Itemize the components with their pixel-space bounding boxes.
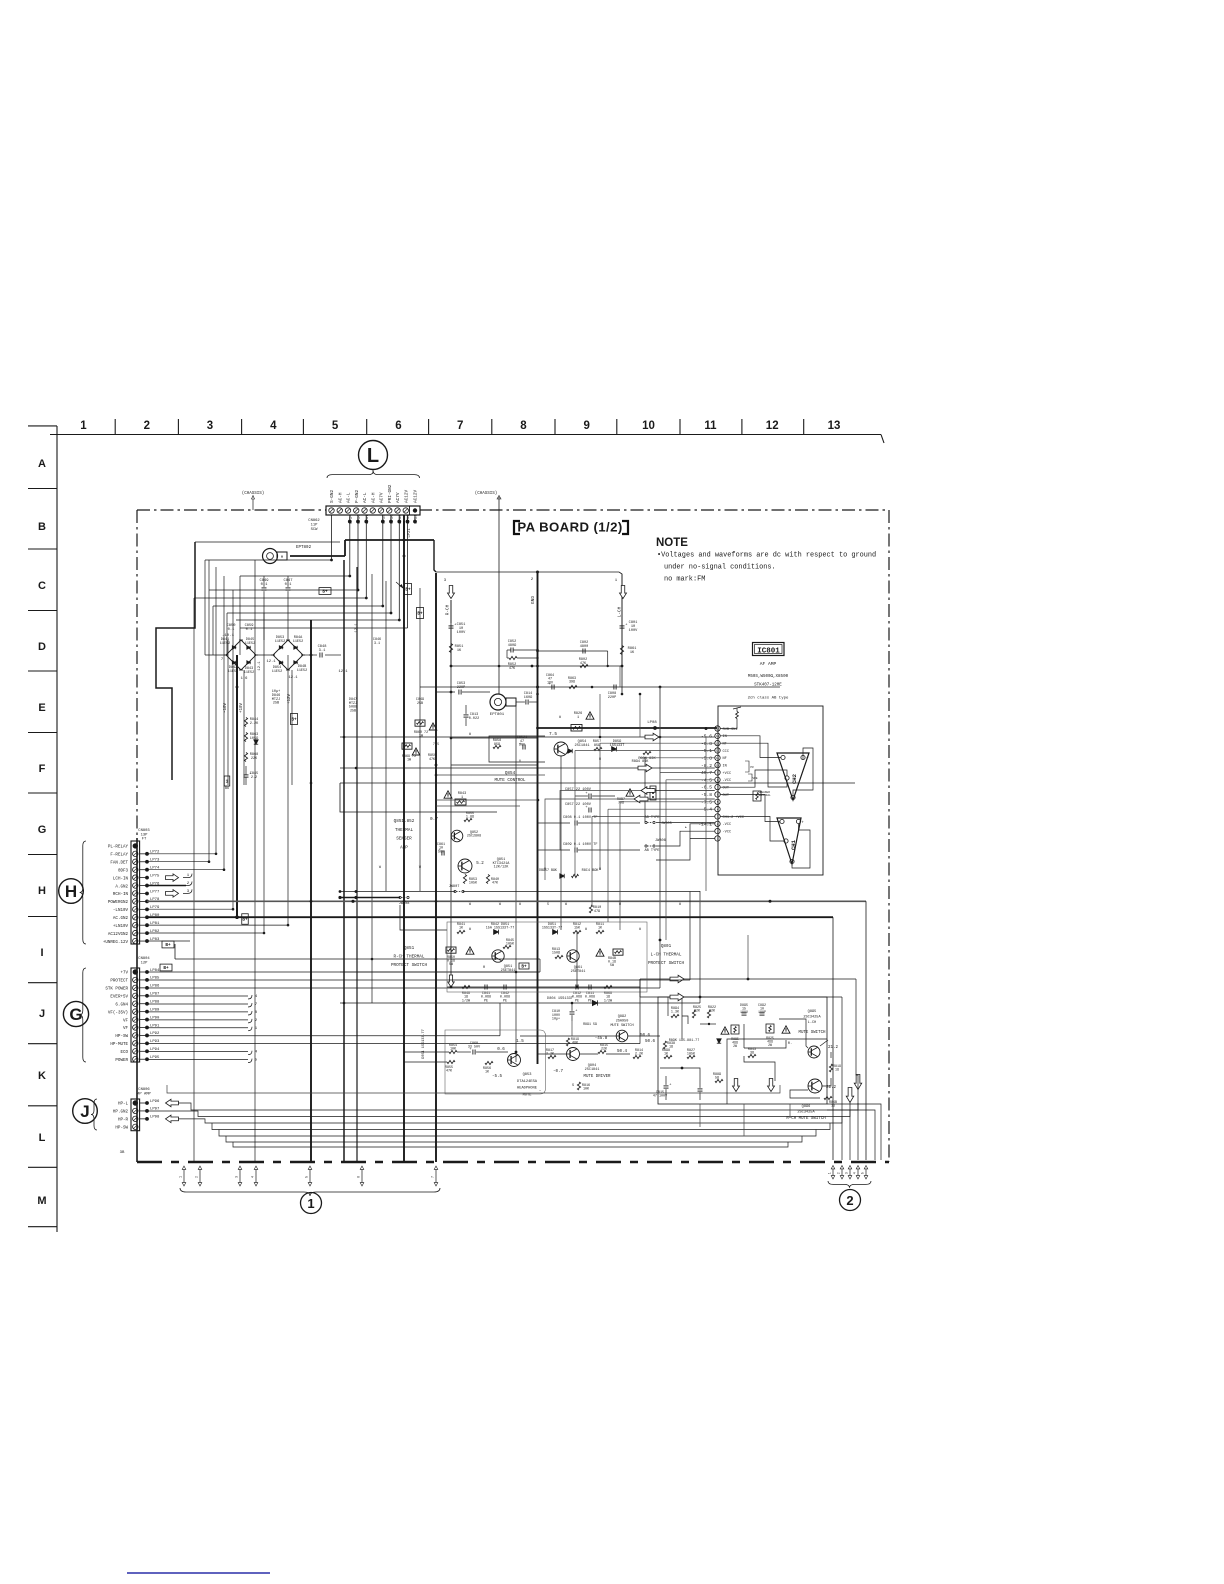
svg-text:Q8Ω2: Q8Ω2 — [618, 1015, 626, 1019]
svg-text:J: J — [80, 1102, 89, 1121]
node LP81 — [140, 924, 147, 926]
svg-text:IC801: IC801 — [757, 647, 780, 655]
ground arrow R-CH — [448, 975, 455, 987]
wire fan horizontal y606 — [213, 605, 383, 607]
svg-text:2SC2808: 2SC2808 — [467, 835, 481, 839]
wires to bottom stubs — [183, 1162, 185, 1166]
svg-text:+: + — [669, 1084, 671, 1088]
svg-text:13: 13 — [828, 420, 841, 432]
svg-text:R8Ω4 86K: R8Ω4 86K — [632, 760, 650, 764]
svg-text:2: 2 — [144, 420, 150, 432]
capacitor C853 — [436, 691, 455, 693]
IC801 sub-gnd squiggle — [736, 712, 739, 719]
wire y738 — [451, 737, 537, 739]
svg-text:JW806: JW806 — [655, 839, 666, 843]
svg-text:7: 7 — [221, 658, 223, 662]
wire CN804 row 4 — [147, 995, 248, 997]
wire vertical bus x194 — [193, 598, 195, 1162]
svg-text:1: 1 — [226, 780, 229, 785]
svg-text:under no-signal conditions.: under no-signal conditions. — [664, 564, 776, 572]
wire junction — [343, 1002, 346, 1005]
top connector body CN861 — [326, 506, 420, 515]
connector stub group1 pin 6 — [361, 1168, 363, 1184]
transistor Q80x mute driver upper — [616, 1030, 628, 1042]
resistor R808 — [664, 1055, 672, 1058]
IC801 pin 14 — [715, 733, 720, 738]
svg-text:15K: 15K — [574, 927, 581, 931]
svg-text:AC.GN2: AC.GN2 — [113, 917, 129, 921]
resistor R814 — [633, 1055, 641, 1058]
resistor R841 — [457, 930, 465, 933]
IC801 pin13 small resistor — [753, 791, 761, 801]
wire pin drop x407.5 — [407, 521, 409, 628]
transistor Q853 — [508, 1054, 521, 1067]
svg-text:Q851: Q851 — [404, 946, 415, 951]
svg-text:4800: 4800 — [580, 645, 588, 649]
svg-text:2W: 2W — [768, 1043, 772, 1047]
boxed B+ rotated near bus — [242, 914, 249, 925]
svg-text:+: + — [585, 806, 587, 810]
svg-text:+10V: +10V — [240, 702, 244, 713]
wire junction — [208, 860, 211, 863]
block arrow OUT left — [641, 787, 655, 795]
svg-text:ECO: ECO — [120, 1051, 128, 1055]
wire y891 jumper line — [340, 891, 455, 893]
svg-text:LP77: LP77 — [150, 890, 160, 894]
svg-text:4: 4 — [251, 1176, 255, 1178]
resistor R825 — [692, 1010, 695, 1018]
wire CN806 fan — [147, 1110, 178, 1112]
wire vertical bus x372 — [371, 574, 373, 1003]
wire risers midband — [544, 850, 546, 880]
svg-text:JW807: JW807 — [449, 885, 460, 889]
svg-text:+12V: +12V — [288, 693, 292, 704]
svg-text:1SS133T: 1SS133T — [610, 744, 625, 748]
warning triangle R-CH protect — [466, 947, 474, 954]
svg-text:12.1: 12.1 — [258, 661, 262, 671]
transistor Q852 — [451, 830, 463, 842]
wire IC801 pin row y750.5 — [575, 750, 715, 752]
svg-text:B: B — [38, 521, 46, 533]
resistor R802 on y666 — [580, 664, 588, 667]
svg-text:AC12V: AC12V — [404, 489, 409, 503]
wire vertical bus x420 — [419, 588, 421, 891]
svg-text:2SC1841: 2SC1841 — [574, 744, 589, 748]
capacitor C802 — [760, 1012, 765, 1014]
node LP94 — [140, 1050, 147, 1052]
svg-text:150Ω: 150Ω — [552, 952, 560, 956]
wire thermal block outline — [340, 783, 497, 812]
connector location callout circle G — [63, 1001, 88, 1026]
wire junction — [435, 774, 438, 777]
wire fan drop x205 — [204, 560, 206, 655]
R-CH protect switch circuit box — [447, 922, 697, 992]
svg-text:5.4: 5.4 — [704, 807, 713, 813]
svg-text:VRE: VRE — [752, 777, 757, 780]
wire right drop 833 — [832, 917, 834, 1160]
junction R-CH node — [450, 665, 453, 668]
svg-text:220P: 220P — [608, 696, 616, 700]
svg-text:K: K — [38, 1070, 46, 1082]
svg-text:2.2K: 2.2K — [546, 1053, 555, 1057]
svg-text:4: 4 — [853, 1172, 857, 1174]
resistor R810 — [589, 905, 592, 913]
svg-text:-5.8: -5.8 — [701, 755, 712, 761]
svg-text:-6.5: -6.5 — [701, 785, 712, 791]
resistor R819 — [566, 1038, 569, 1046]
svg-text:-5.5: -5.5 — [492, 1075, 503, 1079]
svg-text:22K: 22K — [694, 1010, 701, 1014]
IC801 pin 8 — [715, 777, 720, 782]
mute switch inner enclosure — [727, 1039, 827, 1104]
svg-text:100V: 100V — [629, 629, 638, 633]
capacitor C811 — [588, 985, 590, 990]
wire junction — [365, 597, 368, 600]
GND column junctions — [536, 693, 539, 696]
capacitor C809 0.1 100V TF — [538, 849, 570, 851]
wire pin drop x358 — [357, 521, 359, 590]
svg-text:R-CH: R-CH — [446, 604, 451, 615]
svg-text:IN: IN — [723, 765, 727, 769]
wire fan horizontal y620 — [236, 619, 399, 621]
node LP90 — [140, 1019, 147, 1021]
block arrow LCH-IN — [166, 874, 179, 882]
node LP76 — [140, 885, 147, 887]
svg-text:HP-R: HP-R — [118, 1119, 129, 1123]
svg-text:1: 1 — [307, 1196, 314, 1211]
svg-text:0.1: 0.1 — [285, 583, 293, 587]
svg-text:C: C — [38, 580, 46, 592]
node LP72 — [140, 853, 147, 855]
wire across to GND — [451, 665, 622, 667]
svg-text:2SC1841: 2SC1841 — [585, 1068, 600, 1072]
wire junction — [699, 996, 702, 999]
svg-text:L-CH THERMAL: L-CH THERMAL — [651, 953, 682, 958]
svg-text:6: 6 — [357, 1176, 361, 1178]
svg-text:VF: VF — [123, 1027, 129, 1031]
boxed B+ label near CN804 top — [160, 964, 172, 971]
svg-text:B+: B+ — [242, 918, 248, 923]
svg-text:-5.1: -5.1 — [701, 748, 712, 754]
wire pin drop x331.5 — [331, 525, 333, 560]
svg-text:-VCC: -VCC — [723, 831, 732, 835]
svg-text:LP08: LP08 — [647, 721, 657, 725]
wire junction — [390, 612, 393, 615]
wire IC801 pin row y801.8 — [620, 801, 715, 803]
svg-text:2.2K: 2.2K — [250, 722, 259, 726]
svg-text:H: H — [38, 885, 46, 897]
wire junction — [681, 1067, 684, 1070]
svg-text:PROTECT SWITCH: PROTECT SWITCH — [648, 961, 685, 966]
resistor R861 — [620, 646, 623, 655]
svg-text:M50S,W500Ω,X8500: M50S,W500Ω,X8500 — [748, 675, 789, 679]
wire junction — [659, 939, 662, 942]
svg-text:+UNREG.12V: +UNREG.12V — [103, 941, 129, 945]
IC801 pin 2 — [715, 821, 720, 826]
svg-text:2ch class AB type: 2ch class AB type — [748, 696, 789, 701]
svg-text:40.7: 40.7 — [701, 770, 712, 776]
svg-text:VF: VF — [123, 1019, 129, 1023]
connector stub group1 pin 2 — [199, 1168, 201, 1184]
capacitor C849 — [262, 587, 267, 589]
svg-text:0.7: 0.7 — [430, 817, 438, 822]
wire vertical bus x404 — [403, 515, 405, 1162]
capacitor C808 220P — [613, 685, 615, 690]
svg-text:12.1: 12.1 — [338, 670, 348, 674]
wire loop lower 2 — [219, 1130, 816, 1137]
svg-text:2: 2 — [846, 1193, 853, 1208]
wire LP21 drop — [403, 521, 405, 540]
svg-text:0: 0 — [519, 760, 521, 764]
svg-text:SENSER: SENSER — [396, 837, 412, 842]
wire loop lower 1 — [212, 1123, 830, 1130]
svg-text:3Ω: 3Ω — [750, 1052, 754, 1056]
warning R843 — [444, 791, 452, 798]
svg-text:STK POWER: STK POWER — [105, 988, 128, 992]
IC801 pin 10 — [715, 762, 720, 767]
resistor R817 — [548, 1055, 556, 1058]
svg-text:•Voltages and waveforms are dc: •Voltages and waveforms are dc with resp… — [657, 552, 876, 560]
wire vertical x706 — [705, 737, 707, 891]
svg-text:10μ+: 10μ+ — [552, 1018, 560, 1022]
svg-text:-0.7: -0.7 — [553, 1070, 564, 1074]
wire junction — [339, 890, 342, 893]
resistor R819b — [829, 1064, 832, 1072]
node LP93 — [140, 1042, 147, 1044]
transistor Q804 — [567, 1048, 580, 1061]
board border top dash-dot — [137, 509, 889, 511]
capacitor C812 — [575, 985, 577, 990]
svg-text:11E52: 11E52 — [244, 671, 255, 675]
svg-text:9: 9 — [583, 420, 589, 432]
svg-text:6: 6 — [395, 420, 401, 432]
svg-text:D804 1SS133T: D804 1SS133T — [547, 997, 574, 1001]
svg-text:-5.6: -5.6 — [701, 733, 712, 739]
svg-text:16V: 16V — [547, 681, 554, 685]
jumper JW806 — [645, 845, 647, 847]
wire junction — [403, 900, 406, 903]
brace bottom right — [828, 1181, 871, 1188]
ground arrow mute 1 — [733, 1079, 740, 1092]
svg-text:HP.GN2: HP.GN2 — [113, 1111, 129, 1115]
svg-text:2SC3425A: 2SC3425A — [797, 1110, 815, 1114]
capacitor C861 — [441, 851, 443, 856]
brace for CN804 — [80, 968, 86, 1062]
board border left solid lower — [136, 838, 138, 1162]
brace over top connector — [327, 471, 420, 478]
wire y917 heavy ACGN2 — [147, 916, 833, 918]
svg-text:480Ω: 480Ω — [508, 644, 516, 648]
wire junction — [450, 691, 453, 694]
svg-text:13: 13 — [716, 742, 720, 745]
wire mute block drops — [699, 1104, 701, 1127]
node LP89 — [140, 1011, 147, 1013]
svg-text:LP96: LP96 — [150, 1100, 160, 1104]
svg-text:3.1: 3.1 — [374, 642, 380, 646]
svg-text:AC-L: AC-L — [347, 492, 352, 503]
wire chassis right vertical — [498, 497, 500, 694]
svg-text:EVER+5V: EVER+5V — [110, 995, 128, 999]
node LP82 — [140, 932, 147, 934]
svg-text:105K: 105K — [687, 1053, 696, 1057]
wire vertical bus x682 — [681, 997, 683, 1039]
resistor R854 — [449, 1050, 457, 1053]
wire fan horizontal y628 — [240, 627, 408, 629]
svg-text:-7.5: -7.5 — [701, 799, 712, 805]
board border left dash-dot upper — [136, 510, 138, 838]
svg-text:7: 7 — [431, 1176, 435, 1178]
svg-text:POWERGN2: POWERGN2 — [108, 901, 129, 905]
resistor R815 — [598, 1050, 606, 1053]
svg-text:7.5: 7.5 — [549, 732, 557, 737]
svg-text:EPT801: EPT801 — [490, 713, 505, 717]
svg-text:B+: B+ — [291, 718, 297, 723]
wire junction — [515, 971, 518, 974]
capacitor C848 — [303, 654, 317, 656]
wire y959 horizontal — [175, 958, 540, 960]
wire drop from C847 area — [263, 598, 265, 640]
svg-text:CN862: CN862 — [308, 519, 320, 523]
power rail -10V — [227, 640, 229, 785]
hollow down arrow right 2 — [854, 1075, 862, 1090]
jumper wires AB TYPE to pins — [656, 822, 715, 824]
svg-text:11: 11 — [716, 757, 720, 760]
connector stub group2 pin 3 — [849, 1168, 851, 1177]
svg-text:Q8Ω6: Q8Ω6 — [802, 1105, 811, 1109]
svg-text:70Ω: 70Ω — [618, 802, 624, 806]
warning triangle mute L — [721, 1027, 729, 1034]
resistor R849 — [462, 985, 470, 988]
wire fan horizontal y613 — [227, 612, 391, 614]
wire junction — [236, 916, 239, 919]
connector stub group1 pin 1 — [183, 1168, 185, 1184]
connector stub group1 pin 7 — [435, 1168, 437, 1184]
capacitor C847 — [286, 587, 291, 589]
wire vertical bus x264 — [263, 613, 265, 933]
wire y972 — [340, 971, 538, 973]
svg-text:22K: 22K — [251, 757, 258, 761]
connector CN803 body — [131, 841, 140, 944]
warning and boxed resistor L-CH protect — [596, 949, 604, 956]
svg-text:L-CH: L-CH — [808, 1021, 817, 1025]
wire junction — [355, 767, 358, 770]
grid ruler left line — [56, 426, 58, 1232]
wire junction — [599, 736, 602, 739]
svg-text:no mark:FM: no mark:FM — [664, 576, 705, 584]
transistor Q806 — [808, 1079, 822, 1093]
wire y930 box top — [400, 905, 447, 930]
svg-text:P#: P# — [750, 766, 754, 769]
svg-text:3: 3 — [235, 1176, 239, 1178]
hollow down arrow right 1 — [846, 1088, 854, 1103]
svg-text:22K: 22K — [601, 1048, 608, 1052]
wire fan drop x213 — [212, 606, 214, 655]
node LP74 — [140, 869, 147, 871]
node LP91 — [140, 1027, 147, 1029]
capacitor C813 — [464, 714, 469, 716]
svg-text:25B: 25B — [417, 702, 423, 706]
svg-text:AC12V: AC12V — [414, 489, 419, 503]
svg-text:B+: B+ — [322, 590, 328, 595]
wire fan horizontal y598 — [194, 597, 366, 599]
boxed resistor R805 — [731, 1025, 739, 1034]
capacitor D805 — [742, 1012, 747, 1014]
svg-text:5W: 5W — [449, 962, 453, 966]
svg-text:-5.8: -5.8 — [701, 792, 712, 798]
wire protect bottom y987 — [447, 986, 620, 988]
svg-text:7.5: 7.5 — [433, 743, 439, 747]
wire junction — [215, 853, 218, 856]
wire loop hp-l — [178, 1103, 858, 1110]
wire IC801 pin row y809.2 — [608, 808, 715, 810]
svg-text:M: M — [37, 1195, 46, 1207]
wire junction — [531, 665, 534, 668]
wire fan drop x240 — [239, 576, 241, 655]
svg-text:AC-H: AC-H — [371, 492, 376, 503]
svg-text:47K: 47K — [446, 1070, 453, 1074]
capacitor C842 — [503, 985, 505, 990]
svg-text:1.8Ω: 1.8Ω — [466, 816, 474, 820]
svg-text:M: M — [281, 556, 283, 560]
boxed resistor R860 — [415, 720, 425, 726]
wire junction — [357, 589, 360, 592]
wire junction — [403, 555, 406, 558]
wire CN804 row 11 — [147, 1051, 248, 1053]
wire y901 heavy POWERGN2 — [147, 900, 866, 902]
wire y925 — [147, 924, 288, 926]
wire top horizontal y687 — [420, 686, 780, 688]
wire y806 mid — [436, 805, 520, 807]
wire arrow feed y979 — [640, 978, 856, 980]
svg-text:MUTE DRIVER: MUTE DRIVER — [583, 1075, 611, 1079]
svg-text:B+: B+ — [521, 965, 527, 970]
resistor R804 1.3K — [671, 1014, 679, 1017]
resistor R838 — [663, 1041, 666, 1049]
svg-text:A.GN2: A.GN2 — [115, 885, 128, 889]
capacitor C814 — [525, 700, 527, 705]
svg-text:2SET841: 2SET841 — [571, 970, 586, 974]
wire loop hp-r — [178, 1117, 842, 1124]
wire LP08 to IC — [705, 727, 708, 730]
svg-text:10K: 10K — [450, 1048, 457, 1052]
svg-text:5.2: 5.2 — [476, 862, 484, 866]
resistor R813 — [555, 955, 563, 958]
svg-text:R8C4 BΩK: R8C4 BΩK — [582, 869, 600, 873]
svg-text:21.2: 21.2 — [826, 1086, 837, 1090]
wire mute driver row — [520, 1035, 616, 1037]
svg-text:11E52: 11E52 — [297, 669, 308, 673]
svg-text:11E52: 11E52 — [220, 642, 231, 646]
svg-text:LP21: LP21 — [408, 528, 412, 538]
svg-text:11E52: 11E52 — [272, 670, 283, 674]
wire vertical bus x645 — [644, 757, 646, 822]
wire IC801 pin row y743.2 — [600, 742, 715, 744]
wire CN804 row 7 — [147, 1019, 248, 1021]
wire fan horizontal y560 — [205, 559, 332, 561]
wire junction — [348, 575, 351, 578]
svg-text:3: 3 — [845, 1172, 849, 1174]
diode D851 R-CH — [494, 930, 499, 935]
wire vertical bus x537.5 — [537, 573, 539, 1064]
resistor R840 — [486, 875, 489, 884]
resistor R858 — [493, 745, 501, 748]
wire vertical bus x237 — [236, 655, 238, 917]
wire junction — [232, 908, 235, 911]
svg-text:LP75: LP75 — [150, 874, 160, 878]
resistor R822 — [707, 1010, 710, 1018]
wire CN804 risers — [539, 959, 541, 972]
wire LP96 line — [177, 1102, 179, 1104]
